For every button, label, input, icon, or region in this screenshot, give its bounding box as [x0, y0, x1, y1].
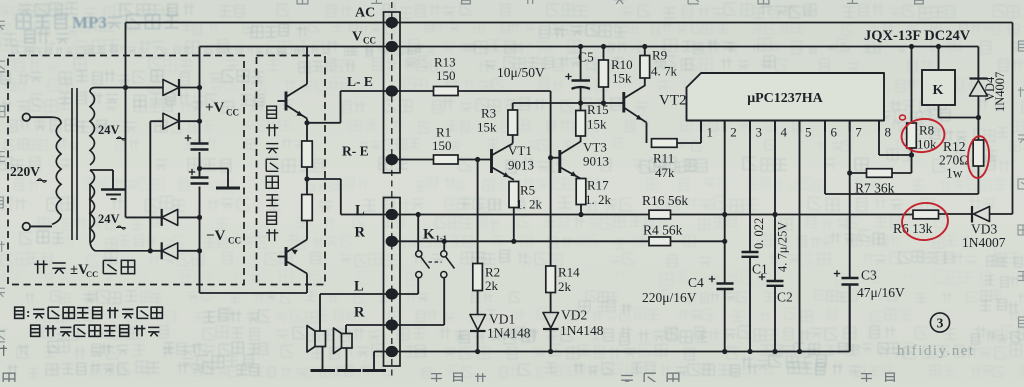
resistor R17 — [576, 179, 586, 205]
junction Vcc/R9 — [642, 44, 647, 49]
wire pin3 column — [749, 121, 751, 252]
svg-text:1. 2k: 1. 2k — [516, 197, 543, 212]
wire cap midpoint to ground — [200, 168, 229, 170]
svg-text:1N4148: 1N4148 — [560, 323, 604, 338]
wire primary bottom lead — [30, 225, 52, 227]
svg-text:JQX-13F DC24V: JQX-13F DC24V — [864, 28, 971, 44]
speaker R — [345, 325, 347, 334]
capacitor C1 — [742, 251, 759, 253]
resistor R16 — [649, 210, 671, 219]
svg-text:24V: 24V — [98, 212, 120, 226]
pin 7 — [849, 121, 851, 132]
svg-text:9013: 9013 — [583, 154, 609, 169]
junction D4 — [197, 248, 202, 253]
svg-text:0. 022: 0. 022 — [752, 218, 766, 249]
wire D2 feed from sec-bottom — [149, 121, 151, 251]
wire secondary top lead to AC/D1 — [90, 88, 163, 93]
svg-text:24V: 24V — [98, 123, 120, 137]
diode D3 — [126, 216, 162, 218]
svg-text:4. 7k: 4. 7k — [651, 64, 678, 79]
wire bottom emitter — [306, 221, 308, 240]
relay contact K1-1 right pole — [441, 251, 447, 257]
transformer T1 primary winding — [52, 117, 61, 224]
resistor R7 — [850, 172, 867, 174]
junction L-E node — [304, 120, 309, 125]
svg-text:VT1: VT1 — [508, 143, 532, 158]
power supply dashed enclosure — [8, 56, 244, 285]
resistor output emitter R lower — [302, 195, 313, 221]
svg-text:4: 4 — [781, 125, 788, 140]
junction R17/L line — [578, 212, 583, 217]
junction K1 right tap — [442, 239, 447, 244]
transformer T1 core — [71, 88, 73, 240]
note line 2 左声道功放接法相同 — [31, 325, 40, 336]
op-amp U1 uPC1237HA body — [687, 73, 885, 121]
svg-text:V: V — [352, 30, 362, 45]
connector strip upper block — [384, 12, 401, 173]
wire C3 gnd corner — [849, 285, 851, 352]
wire primary top lead — [30, 116, 52, 118]
annotation red ellipse R12 — [967, 135, 991, 178]
connector strip dashed axis — [391, 2, 393, 378]
junction D4 anode — [148, 248, 153, 253]
wire L sense line — [341, 214, 913, 216]
junction R5/R line — [511, 239, 516, 244]
transistor output top — [285, 92, 288, 111]
resistor R6 — [913, 210, 939, 219]
wire Vcc rail — [200, 46, 979, 48]
junction pin4/L — [772, 212, 777, 217]
junction Vcc/C5 — [578, 44, 583, 49]
junction K1 left tap — [416, 212, 421, 217]
wire -V to output stage — [200, 292, 308, 294]
svg-text:R6 13k: R6 13k — [893, 221, 933, 236]
junction VT3 base — [548, 155, 553, 160]
svg-text:2k: 2k — [485, 278, 499, 293]
svg-text:C3: C3 — [861, 268, 877, 283]
wire ground bus — [374, 351, 850, 353]
resistor R13 — [434, 87, 459, 96]
svg-text:R3: R3 — [481, 106, 496, 121]
pin 8 — [878, 121, 880, 132]
pin 3 — [749, 121, 751, 132]
svg-text:1w: 1w — [946, 166, 963, 181]
wire L-E down to VT3 base — [550, 91, 552, 266]
wire R-E line — [392, 159, 434, 161]
svg-text:MP3: MP3 — [72, 13, 107, 32]
svg-text:μPC1237HA: μPC1237HA — [747, 91, 823, 106]
wire AC tap vertical — [125, 23, 127, 218]
resistor R2 — [473, 264, 483, 291]
svg-text:2k: 2k — [558, 279, 572, 294]
svg-text:1. 2k: 1. 2k — [585, 192, 612, 207]
junction Vcc/R10 — [601, 44, 606, 49]
svg-text:R5: R5 — [520, 183, 535, 198]
transistor output bottom — [285, 247, 288, 266]
capacitor C2 — [767, 280, 784, 282]
wire R2 hanger — [477, 160, 479, 264]
junction pin4/gnd — [772, 349, 777, 354]
label power supply 功放±Vcc电源 — [34, 260, 47, 273]
svg-text:7: 7 — [855, 125, 862, 140]
svg-text:R17: R17 — [587, 178, 609, 193]
pin 6 — [824, 121, 826, 132]
wire K1 right lower — [443, 278, 445, 325]
svg-text:R8: R8 — [919, 123, 934, 138]
speaker L — [319, 294, 321, 331]
svg-text:6: 6 — [831, 125, 838, 140]
svg-text:47k: 47k — [655, 165, 675, 180]
diode VD1 — [477, 291, 479, 315]
wire pin4 column — [774, 121, 776, 281]
wire L-E line — [341, 90, 434, 92]
terminal LE — [386, 85, 398, 96]
svg-text:K: K — [933, 83, 944, 98]
junction VD2/gnd — [548, 349, 553, 354]
svg-text:VD1: VD1 — [489, 312, 515, 327]
junction VD1/gnd — [475, 349, 480, 354]
junction pin2/L — [722, 212, 727, 217]
svg-text:R14: R14 — [558, 265, 580, 280]
resistor R5 — [509, 182, 519, 208]
wire secondary bottom lead — [90, 185, 150, 251]
svg-text:C2: C2 — [777, 290, 793, 305]
resistor R4 — [649, 237, 671, 246]
diode VD4 — [977, 47, 979, 81]
svg-text:VD2: VD2 — [561, 308, 587, 323]
wire K bottom — [938, 105, 940, 118]
wire L-E tap — [307, 122, 341, 124]
svg-text:5: 5 — [805, 125, 812, 140]
svg-text:R11: R11 — [653, 151, 674, 166]
wire R sense line — [392, 240, 649, 242]
resistor R15 — [576, 111, 586, 137]
svg-text:hifidiy.net: hifidiy.net — [897, 343, 975, 359]
transformer T1 secondary winding lower 24V — [90, 170, 95, 243]
svg-text:R- E: R- E — [342, 144, 369, 159]
transformer T1 primary terminals — [23, 113, 31, 121]
junction pin3/gnd — [747, 349, 752, 354]
svg-text:C4: C4 — [688, 275, 704, 290]
junction R10/base — [601, 100, 606, 105]
terminal L1 — [386, 209, 398, 220]
svg-text:220μ/16V: 220μ/16V — [642, 290, 697, 305]
capacitor C3 — [842, 277, 859, 279]
terminal AC — [386, 17, 398, 28]
terminal G — [386, 346, 398, 357]
svg-text:150: 150 — [436, 68, 456, 83]
svg-text:9013: 9013 — [508, 158, 534, 173]
wire speaker R line — [346, 324, 444, 326]
terminal L2 — [386, 288, 398, 299]
resistor R11 — [652, 139, 678, 148]
ground speaker L — [311, 369, 336, 372]
relay coil K — [922, 70, 955, 105]
svg-text:3: 3 — [937, 316, 944, 331]
circled number 3 — [930, 313, 949, 332]
resistor R14 — [546, 266, 556, 293]
junction pin5/gnd — [797, 349, 802, 354]
junction sec-top / AC tap — [123, 85, 128, 90]
wire pin2 column — [724, 121, 726, 284]
pin 2 — [724, 121, 726, 132]
svg-text:1N4007: 1N4007 — [962, 235, 1006, 250]
wire K1 left lower — [417, 278, 419, 294]
pin 5 — [799, 121, 801, 132]
svg-text:R16 56k: R16 56k — [642, 193, 688, 208]
junction pin2/gnd — [722, 349, 727, 354]
resistor R9 — [644, 47, 646, 56]
svg-text:R: R — [355, 225, 366, 241]
pin 1 — [700, 121, 702, 132]
svg-text:CC: CC — [228, 236, 241, 246]
wire secondary center tap — [90, 169, 113, 171]
svg-text:15k: 15k — [477, 120, 497, 135]
svg-text:15k: 15k — [612, 71, 632, 86]
ground center tap — [101, 188, 126, 191]
svg-text:C1: C1 — [752, 262, 768, 277]
transistor VT3 — [558, 150, 561, 173]
junction Vcc/R8 — [909, 44, 914, 49]
svg-text:VT3: VT3 — [583, 140, 607, 155]
wire pin6 to R12 — [824, 121, 826, 195]
wire bottom collector to -V — [306, 274, 308, 294]
wire R5 to R line — [513, 208, 515, 242]
junction C5/R15 — [578, 100, 583, 105]
wire pin5 column — [799, 121, 801, 352]
wire K1 left upper — [417, 215, 419, 251]
svg-text:L- E: L- E — [347, 74, 373, 89]
annotation red dot — [900, 115, 906, 120]
wire +V/-V vertical bus — [199, 47, 201, 144]
svg-text:47μ/16V: 47μ/16V — [857, 285, 905, 300]
annotation red ellipse R8 — [899, 116, 946, 155]
resistor output emitter R upper — [302, 141, 313, 167]
wire L tap from midpoint — [307, 178, 341, 180]
ground PSU mid — [216, 187, 240, 190]
wire R17 to L line — [580, 205, 582, 215]
terminal RE — [386, 154, 398, 165]
svg-text:2: 2 — [730, 125, 737, 140]
svg-text:R7 36k: R7 36k — [855, 181, 895, 196]
svg-text:K: K — [423, 227, 435, 243]
svg-text:R9: R9 — [652, 48, 667, 63]
capacitor filter C- — [191, 176, 209, 179]
svg-text:R4 56k: R4 56k — [643, 223, 683, 238]
junction VD4/K/R12 — [976, 115, 981, 120]
junction R7/pin7 — [847, 170, 852, 175]
junction D1 cathode — [197, 85, 202, 90]
svg-text:R: R — [354, 305, 365, 321]
capacitor filter C+ — [191, 142, 209, 145]
ground main — [373, 352, 375, 371]
wire top emitter to node — [306, 119, 308, 142]
resistor R1 — [434, 155, 459, 164]
capacitor C4 — [717, 282, 734, 284]
pin 4 — [774, 121, 776, 132]
junction pin2/R — [722, 239, 727, 244]
note line 1 注:右声道功放接法与 — [15, 307, 24, 318]
connector strip lower block — [384, 198, 401, 367]
diode D4 — [150, 250, 161, 252]
svg-text:L: L — [354, 279, 364, 295]
svg-text:15k: 15k — [587, 117, 607, 132]
svg-text:1: 1 — [707, 125, 714, 140]
svg-text:220V: 220V — [10, 164, 40, 179]
svg-text:AC: AC — [355, 6, 375, 21]
output stage dashed enclosure — [257, 56, 326, 285]
terminal VCC — [386, 41, 398, 52]
svg-text:CC: CC — [86, 269, 98, 279]
svg-text:−V: −V — [206, 228, 226, 244]
svg-text:8: 8 — [885, 125, 892, 140]
diode VD3 — [939, 213, 973, 215]
terminal R1 — [386, 236, 398, 247]
wire +24V right rail — [1012, 23, 1014, 215]
wire K1 right upper — [443, 241, 445, 251]
wire pin7 column — [849, 121, 851, 278]
diode D1 — [126, 87, 164, 89]
svg-text:150: 150 — [432, 138, 452, 153]
junction D3 — [197, 215, 202, 220]
wire speaker L line — [320, 293, 418, 295]
annotation red ellipse R6 — [900, 201, 950, 243]
svg-text:4. 7μ/25V: 4. 7μ/25V — [776, 222, 790, 272]
wire midpoint — [306, 167, 308, 195]
terminal R2 — [386, 319, 398, 330]
svg-text:3: 3 — [756, 125, 763, 140]
junction cap midpoint — [197, 166, 202, 171]
wire top collector to Vcc — [306, 47, 308, 85]
wire VT2 base line — [513, 102, 624, 104]
junction gnd strip — [386, 346, 397, 357]
junction Vcc/K — [936, 44, 941, 49]
svg-text:C5: C5 — [578, 50, 594, 65]
wire AC rail — [126, 22, 1013, 24]
svg-text:VT2: VT2 — [659, 93, 687, 109]
resistor R12 — [977, 118, 979, 141]
junction VT1 base node — [475, 157, 480, 162]
resistor R8 — [911, 47, 913, 124]
svg-text::: : — [26, 305, 30, 320]
svg-text:CC: CC — [363, 36, 376, 46]
junction pin8/R8 — [909, 152, 914, 157]
label 左声道功放末级管 vertical — [267, 106, 277, 118]
svg-text:1N4007: 1N4007 — [993, 72, 1007, 112]
resistor R3 — [512, 135, 514, 144]
resistor R10 — [603, 47, 605, 61]
svg-text:L: L — [355, 203, 365, 219]
svg-text:1-1: 1-1 — [436, 233, 447, 243]
diode VD2 — [550, 293, 552, 313]
svg-text:1N4148: 1N4148 — [487, 326, 531, 341]
transformer T1 secondary winding upper 24V — [90, 92, 95, 165]
junction output midpoint — [304, 176, 309, 181]
wire pin8 to R8 — [878, 121, 880, 156]
transistor VT1 — [490, 149, 493, 173]
svg-text:+V: +V — [205, 100, 225, 116]
svg-text:10μ/50V: 10μ/50V — [497, 65, 545, 80]
ground speaker R — [338, 369, 362, 372]
linkage K1-1 — [429, 261, 442, 263]
relay contact K1-1 left pole — [416, 251, 422, 257]
junction D2 cathode — [197, 119, 202, 124]
wire R11 to pin1 — [677, 142, 701, 144]
capacitor C5 — [580, 47, 582, 81]
diode D2 — [150, 120, 163, 122]
transistor VT2 — [622, 92, 625, 113]
svg-text:CC: CC — [226, 108, 239, 118]
